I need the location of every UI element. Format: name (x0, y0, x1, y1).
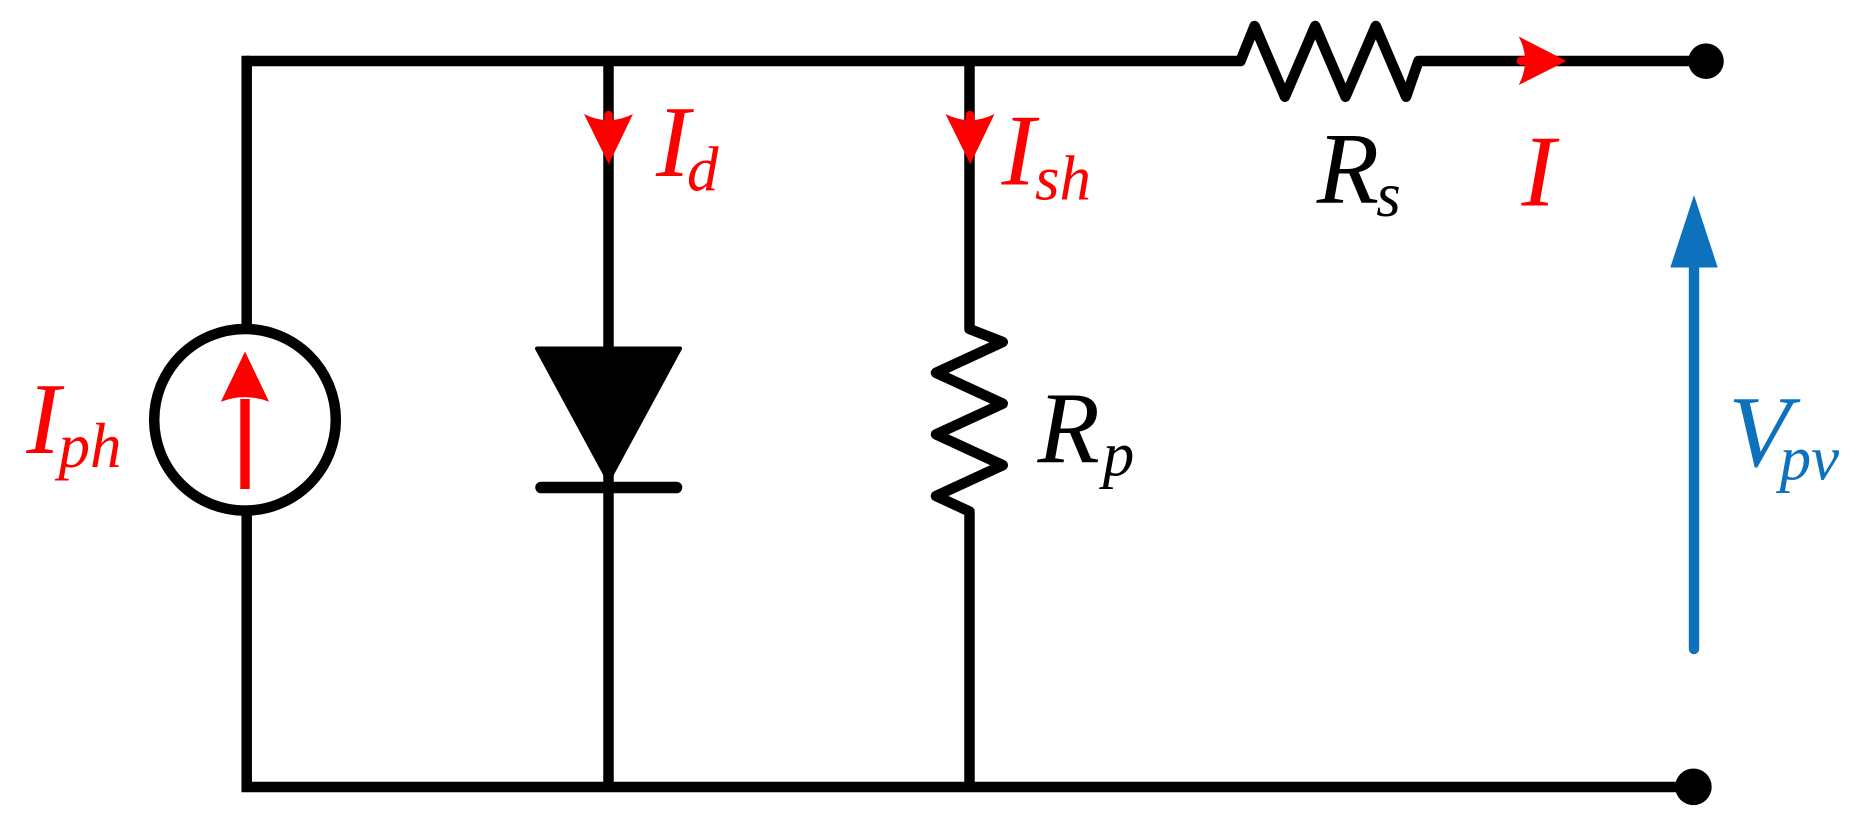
wire: shunt branch with resistor Rp zigzag (one run) (936, 61, 1003, 787)
svg-text:I: I (1521, 116, 1560, 229)
red arrow inside current source (upward) (221, 352, 269, 490)
diode D1 triangle (anode) (537, 349, 680, 481)
label Iph (25, 363, 121, 481)
blue arrow Vpv (upward) (1670, 195, 1717, 649)
svg-text:ph: ph (55, 411, 122, 481)
terminal node bottom right (1675, 769, 1712, 806)
label Rs (1316, 113, 1401, 230)
svg-text:R: R (1316, 113, 1379, 226)
svg-text:R: R (1037, 373, 1100, 486)
corner patch top-left (sharp 90 corner) (241, 56, 249, 64)
svg-text:sh: sh (1035, 143, 1091, 213)
red arrow I on top rail (rightward) (1519, 37, 1567, 86)
wire: diode branch vertical (top rail to bottom rail) (603, 61, 614, 787)
diode D1 cathode bar (541, 482, 677, 494)
svg-text:pv: pv (1776, 424, 1840, 494)
current source U1 circle (154, 329, 336, 511)
red arrowhead Ish (downward) (946, 114, 995, 164)
label Vpv (1728, 376, 1839, 494)
svg-text:d: d (687, 135, 719, 205)
svg-text:p: p (1099, 420, 1135, 490)
red arrowhead Id (downward) (584, 114, 633, 164)
terminal node top right (1688, 43, 1724, 79)
wire: left lower vertical + bottom rail (247, 514, 1693, 787)
label Ish (1001, 95, 1092, 214)
svg-text:I: I (1001, 95, 1040, 208)
label Id (655, 86, 719, 205)
wire: left vertical + top rail + resistor Rs zigzag + right segment (one run) (247, 26, 1706, 325)
label Rp (1037, 373, 1135, 490)
svg-text:s: s (1376, 160, 1401, 230)
